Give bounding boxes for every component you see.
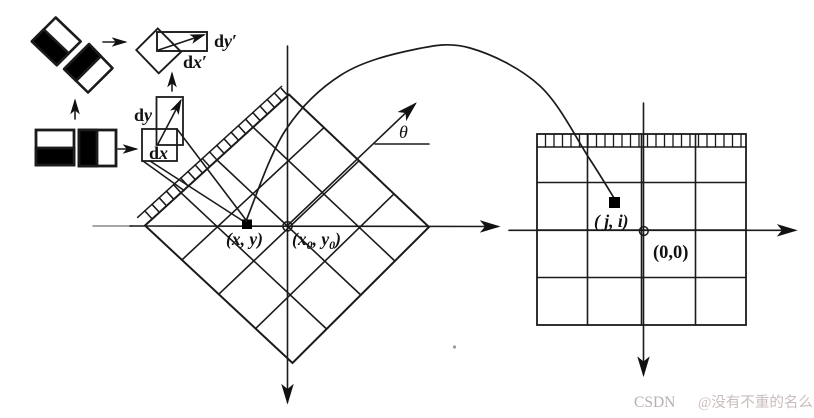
target band ticks [546, 134, 742, 147]
target grid column line c3 [695, 134, 697, 325]
callout line dx-box corner to pixel (x,y) [177, 129, 246, 220]
pixel marker (j,i) [609, 197, 620, 208]
diagonal arrow in dx' rect [159, 35, 204, 50]
arrow from source pair to dx box [118, 148, 136, 150]
dx' rotated cell [136, 29, 181, 74]
up arrow from dy box to dx' cell [171, 74, 173, 91]
diamond grid line v2 [217, 160, 361, 295]
svg-text:dy′: dy′ [214, 31, 237, 51]
svg-text:dx′: dx′ [183, 52, 207, 72]
diagonal arrow in dy rect [158, 101, 181, 144]
arrow from rotated pair to dx'dy' box [103, 41, 125, 43]
svg-text:dy: dy [134, 105, 153, 125]
dx rect (wide) [142, 129, 177, 161]
diamond grid line h3 [256, 194, 394, 329]
up arrow from source pair to rotated pair [74, 101, 76, 119]
hatched band rungs [145, 89, 287, 219]
dy rect (tall) [157, 97, 184, 145]
svg-text:CSDN: CSDN [634, 394, 675, 411]
theta reference line [375, 143, 429, 145]
diamond grid line h2 [219, 161, 359, 294]
origin symbol (x0,y0) [283, 222, 292, 231]
right vertical axis [643, 103, 645, 375]
rotated pixel pair: square P2 (lower-right, upper-left half black) [64, 44, 112, 92]
origin symbol (0,0) [639, 227, 648, 236]
diamond grid line v1 [181, 193, 327, 329]
svg-text:θ: θ [399, 122, 408, 142]
svg-text:(x, y): (x, y) [226, 229, 263, 249]
theta rotation arrow [288, 104, 416, 226]
target grid column line c1 [587, 134, 589, 325]
rotated image square (diamond) [145, 95, 429, 364]
diamond grid line v3 [253, 127, 395, 261]
target grid row line r2 [537, 229, 746, 231]
svg-text:( j, i): ( j, i) [594, 211, 629, 231]
stray dot [453, 345, 456, 348]
callout line dx-box to band cell [143, 161, 184, 191]
left horizontal axis (faint start) [93, 225, 132, 227]
target grid row line r3 [537, 277, 746, 279]
target grid column line c2 [641, 134, 643, 325]
pixel marker (x,y) [242, 220, 252, 230]
rotated pixel pair: square P1 (upper-left, lower-left half black) [32, 18, 81, 66]
svg-text:dx: dx [149, 143, 168, 163]
target band bottom line [537, 146, 746, 148]
svg-text:(0,0): (0,0) [653, 243, 688, 263]
hatched edge band outer line [138, 86, 282, 217]
right horizontal axis [509, 229, 795, 231]
target image square [537, 134, 746, 325]
left vertical axis [287, 46, 289, 402]
dx' bounding rect [157, 32, 207, 51]
diamond grid line h1 [182, 128, 324, 260]
source pixel pair: square S2 (left half black) [79, 130, 116, 166]
target grid row line r1 [537, 182, 746, 184]
callout line dx-box bottom to pixel (x,y) [150, 161, 243, 221]
svg-text:(x0, y0): (x0, y0) [292, 229, 341, 252]
mapping curve from (x,y) to (j,i) [246, 45, 614, 221]
svg-text:@没有不重的名么: @没有不重的名么 [698, 394, 813, 411]
left horizontal axis [130, 225, 498, 228]
source pixel pair: square S1 (bottom half black) [36, 130, 74, 165]
